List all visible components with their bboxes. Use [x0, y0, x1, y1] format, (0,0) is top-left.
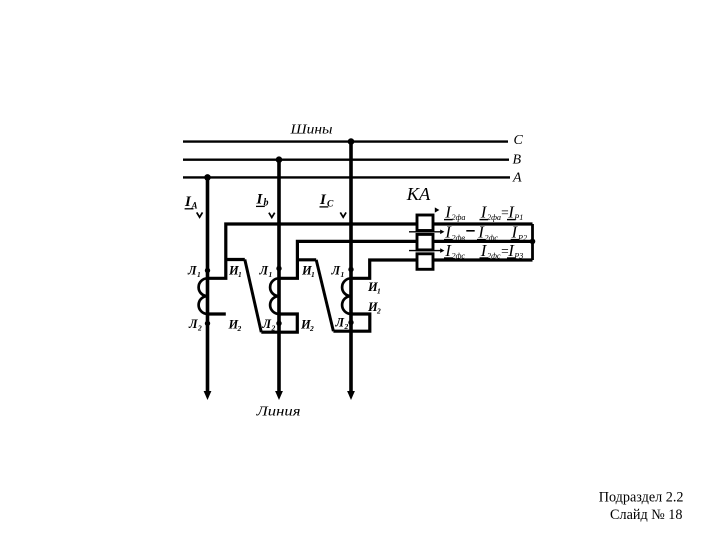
- svg-text:Л: Л: [335, 316, 345, 330]
- relay coil KA2: [417, 234, 433, 250]
- label IC (phase C current): [319, 192, 334, 210]
- label И1 (TA3): [367, 280, 381, 296]
- svg-text:Подраздел 2.2: Подраздел 2.2: [599, 489, 684, 505]
- node: tap on bus A: [204, 174, 211, 181]
- svg-text:2: 2: [237, 324, 242, 333]
- svg-text:I: I: [319, 192, 327, 208]
- arrow: IC direction: [340, 212, 346, 217]
- svg-text:Линия: Линия: [255, 405, 300, 420]
- svg-text:1: 1: [269, 270, 273, 279]
- arrow: Ib direction: [269, 213, 275, 218]
- svg-text:2: 2: [376, 307, 381, 316]
- label И1 (TA1): [228, 264, 242, 280]
- wire: TA1 И1 stub: [208, 224, 533, 278]
- wire: phase B primary (TA2): [277, 160, 281, 393]
- label Л1 (TA3): [331, 264, 345, 280]
- wire: TA3 И2 loop: [333, 314, 369, 331]
- CT TA3 secondary winding arcs: [342, 278, 351, 314]
- node Л2 (TA1): [205, 321, 210, 326]
- svg-text:Шины: Шины: [289, 123, 332, 138]
- arrow: phase C line end: [347, 391, 355, 400]
- label И2 (TA1): [228, 318, 242, 334]
- svg-text:Л: Л: [331, 264, 341, 278]
- svg-text:Л: Л: [187, 264, 197, 278]
- svg-text:1: 1: [197, 270, 201, 279]
- svg-text:I: I: [256, 192, 264, 208]
- node: tap on bus B: [276, 156, 283, 163]
- wire: TA2 И2 loop: [261, 314, 297, 332]
- wire: TA2 И1 stub: [279, 241, 533, 278]
- wire: TA3 И1 stub: [351, 260, 533, 278]
- svg-text:Р3: Р3: [513, 252, 523, 261]
- arrow: IA direction: [197, 212, 203, 217]
- relay coil KA3: [417, 254, 433, 269]
- svg-text:1: 1: [377, 287, 381, 296]
- label Ib (phase B current): [256, 192, 269, 209]
- svg-text:2: 2: [309, 324, 314, 333]
- label Л2 (TA3): [335, 316, 349, 332]
- svg-text:2фс: 2фс: [487, 252, 501, 261]
- label И2 (TA2): [300, 318, 314, 334]
- wire: phase C primary (TA3): [349, 142, 353, 393]
- wire: TA1 И2 stub: [208, 312, 226, 315]
- relay coil KA1: [417, 215, 433, 231]
- node Л2 (TA2): [276, 321, 281, 326]
- svg-text:1: 1: [311, 270, 315, 279]
- wire: diagonal TA1->TA2 loop: [245, 260, 261, 333]
- svg-text:A: A: [512, 171, 522, 186]
- node Л2 (TA3): [348, 320, 353, 325]
- equation row 2: I2фв - I2фс IР2: [444, 223, 527, 243]
- arrow: row1 small: [435, 207, 440, 212]
- svg-text:2фс: 2фс: [452, 252, 466, 261]
- equation row 1: I2фа I2фа=IР1: [444, 202, 523, 222]
- node: return junction: [530, 239, 536, 245]
- svg-text:2: 2: [197, 324, 202, 333]
- svg-text:2фа: 2фа: [452, 213, 466, 222]
- label Л1 (TA2): [259, 264, 273, 280]
- svg-text:2фс: 2фс: [485, 233, 499, 242]
- label IA (phase A current): [184, 194, 198, 211]
- svg-text:Л: Л: [188, 317, 198, 331]
- wire: TA2 branch to diagonal: [297, 258, 316, 261]
- svg-text:1: 1: [238, 270, 242, 279]
- arrow: phase B line end: [275, 391, 283, 400]
- wire: phase A primary (TA1): [206, 177, 210, 392]
- arrow: row 3 current: [409, 248, 444, 253]
- wire: TA1 branch to diagonal: [226, 258, 245, 261]
- svg-text:Л: Л: [262, 317, 272, 331]
- svg-text:Слайд № 18: Слайд № 18: [610, 507, 682, 523]
- label И1 (TA2): [301, 264, 315, 280]
- svg-text:KA: KA: [406, 184, 431, 204]
- svg-text:1: 1: [341, 270, 345, 279]
- bus A: [183, 176, 510, 178]
- label Л2 (TA2): [262, 317, 276, 333]
- node: tap on bus C: [348, 138, 355, 145]
- label И2 (TA3): [367, 300, 381, 316]
- svg-text:Р2: Р2: [517, 233, 527, 242]
- node Л1 (TA1): [205, 268, 210, 273]
- equation row 3: I2фс I2фс=IР3: [444, 241, 523, 261]
- svg-text:C: C: [514, 133, 524, 148]
- wire: relay return vertical: [531, 224, 534, 260]
- CT TA2 secondary winding arcs: [270, 278, 279, 314]
- node Л1 (TA3): [348, 267, 353, 272]
- label Л2 (TA1): [188, 317, 202, 333]
- arrow: phase A line end: [204, 391, 212, 400]
- svg-text:2фв: 2фв: [452, 233, 466, 242]
- bus B: [183, 158, 509, 160]
- wire: diagonal TA2->TA3 loop: [316, 260, 333, 331]
- svg-text:C: C: [327, 200, 334, 210]
- svg-text:B: B: [513, 153, 522, 168]
- svg-text:Р1: Р1: [513, 213, 523, 222]
- svg-text:Л: Л: [259, 264, 269, 278]
- CT TA1 secondary winding arcs: [199, 278, 208, 314]
- svg-text:2фа: 2фа: [487, 213, 501, 222]
- arrow: row 2 current: [409, 230, 444, 235]
- label Л1 (TA1): [187, 264, 201, 280]
- node Л1 (TA2): [276, 266, 281, 271]
- bus C: [183, 140, 508, 142]
